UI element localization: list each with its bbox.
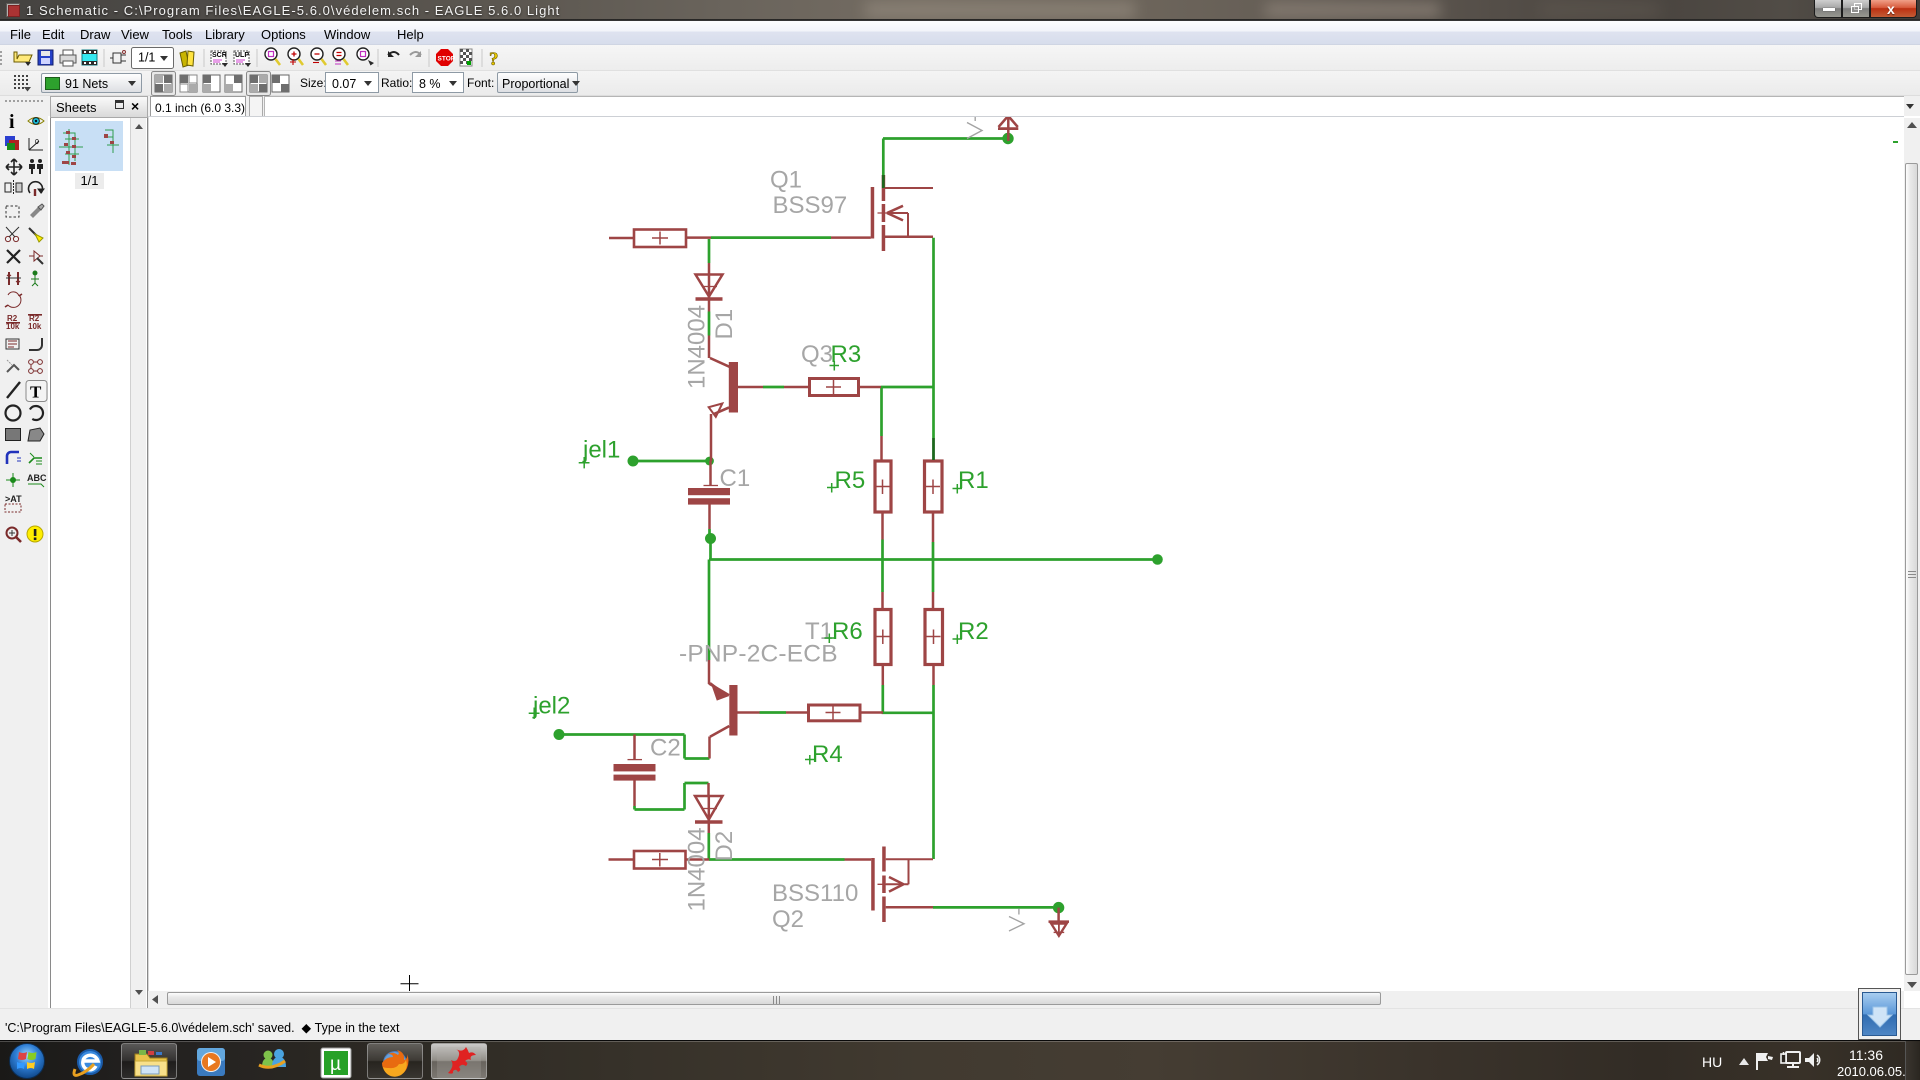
svg-text:jel1: jel1 [582, 437, 620, 464]
svg-text:T: T [30, 383, 42, 402]
svg-text:Q1: Q1 [770, 167, 802, 194]
svg-text:1N4004: 1N4004 [684, 305, 711, 389]
svg-text:Q3: Q3 [801, 341, 833, 368]
svg-text:STOP: STOP [438, 56, 456, 63]
svg-text:R5: R5 [835, 467, 866, 494]
svg-text:10k: 10k [28, 322, 42, 331]
svg-text:Q2: Q2 [772, 906, 804, 933]
svg-text:i: i [9, 111, 15, 133]
svg-text:C2: C2 [650, 735, 681, 762]
svg-text:1/1: 1/1 [138, 51, 155, 65]
svg-text:R2: R2 [958, 618, 989, 645]
svg-text:-PNP-2C-ECB: -PNP-2C-ECB [679, 641, 838, 668]
svg-text:D1: D1 [711, 309, 738, 340]
svg-text:µ: µ [330, 1054, 341, 1075]
svg-text:jel2: jel2 [532, 693, 570, 720]
svg-text:>AT: >AT [5, 494, 22, 504]
svg-text:D2: D2 [711, 831, 738, 862]
svg-text:R4: R4 [812, 741, 843, 768]
svg-text:BSS97: BSS97 [773, 192, 848, 219]
svg-text:0: 0 [35, 139, 39, 146]
svg-text:1N4004: 1N4004 [684, 827, 711, 911]
svg-text:SCR: SCR [212, 52, 227, 59]
svg-text:ULP: ULP [235, 52, 249, 59]
svg-text:R1: R1 [958, 467, 989, 494]
svg-text:BSS110: BSS110 [772, 880, 858, 907]
svg-text:R3: R3 [831, 341, 862, 368]
svg-text:?: ? [489, 49, 499, 70]
svg-text:R6: R6 [832, 618, 863, 645]
svg-text:ABC: ABC [27, 473, 47, 483]
svg-text:C1: C1 [720, 465, 751, 492]
